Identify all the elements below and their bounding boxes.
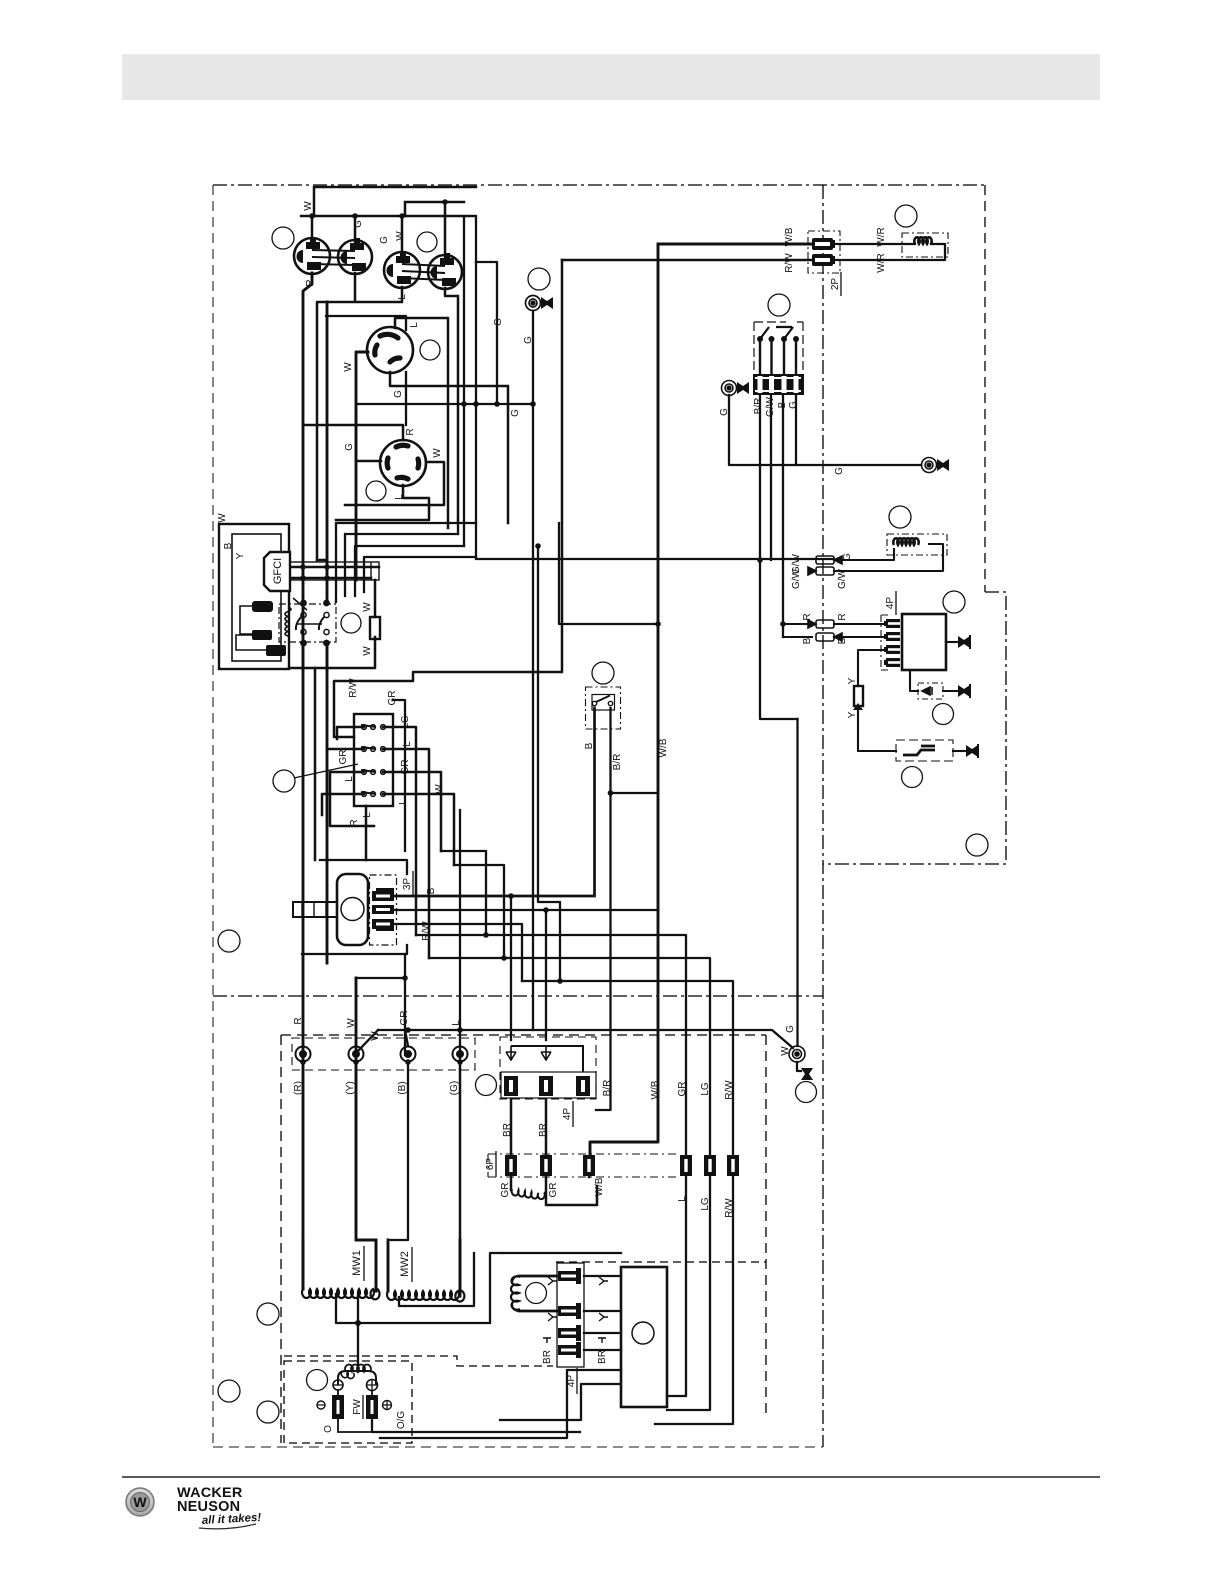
svg-text:W/B: W/B: [658, 738, 669, 757]
svg-text:W: W: [133, 1494, 147, 1510]
svg-text:B: B: [802, 637, 813, 644]
svg-text:R: R: [293, 1017, 304, 1024]
main winding MW1: [302, 1289, 380, 1300]
enclosure boundary top: [213, 184, 985, 186]
svg-text:G: G: [344, 443, 355, 451]
ground lug frame bottom: [789, 1046, 813, 1080]
fuse bodies: [504, 1076, 590, 1096]
svg-text:4P: 4P: [562, 1108, 573, 1121]
svg-text:R/W: R/W: [421, 921, 432, 941]
GR sense coil: [512, 1189, 545, 1199]
svg-text:(B): (B): [397, 1081, 408, 1094]
ground oil switch right: [966, 744, 978, 758]
svg-text:R/W: R/W: [348, 678, 359, 698]
svg-text:R/W: R/W: [724, 1080, 735, 1100]
svg-text:B: B: [837, 637, 848, 644]
wire G/W run: [476, 558, 834, 560]
svg-text:LG: LG: [700, 1197, 711, 1211]
svg-text:W: W: [303, 201, 314, 211]
wire bullets to 4P: [834, 624, 886, 637]
svg-text:GR: GR: [338, 750, 349, 765]
wire 3P loop: [302, 860, 407, 954]
wire right G ground run: [729, 395, 921, 465]
wire fuse link: [289, 580, 375, 668]
wire GR riser: [356, 700, 405, 1055]
wire reg pin3 fuse: [858, 650, 896, 751]
wire TL1 L: [395, 318, 448, 528]
regulator body: [902, 614, 946, 670]
svg-text:W: W: [346, 1018, 357, 1028]
wire TL2 L: [336, 485, 429, 520]
wire receptacle stubs: [312, 202, 445, 256]
bullet connectors G/W: [808, 556, 842, 575]
svg-text:O/G: O/G: [396, 1411, 407, 1430]
diode 2: [541, 1046, 551, 1060]
svg-text:BR: BR: [538, 1123, 549, 1137]
breaker fuse bodies: [753, 374, 804, 395]
wire GFCI nested loops: [336, 523, 476, 602]
circuit breaker bank: [753, 322, 804, 395]
control panel divider: [822, 185, 824, 1447]
wire exciter link: [502, 1252, 621, 1254]
svg-text:G: G: [523, 336, 534, 344]
twist-lock receptacle 30A 3-slot: [367, 327, 413, 373]
svg-text:G/W: G/W: [765, 396, 776, 417]
wire TL1 G: [390, 372, 508, 523]
relay contactor: [279, 598, 380, 646]
svg-text:G: G: [379, 236, 390, 244]
svg-text:GR: GR: [500, 1183, 511, 1198]
svg-text:W/B: W/B: [784, 227, 795, 246]
selector switch: [354, 714, 393, 806]
wire selector fan to 6P: [416, 851, 733, 1154]
low oil level switch: [586, 687, 621, 729]
wire bullet GW return: [834, 544, 943, 571]
header gray bar: [122, 54, 1100, 100]
wire right bundle verticals: [458, 216, 476, 557]
svg-text:3P: 3P: [402, 878, 413, 891]
svg-text:2P: 2P: [830, 278, 841, 291]
svg-text:B: B: [426, 887, 437, 894]
GFCI device body: [264, 552, 290, 591]
svg-text:G: G: [842, 553, 853, 561]
ground lug breaker: [722, 381, 750, 396]
wire MW1 winding sides: [303, 1240, 376, 1289]
oil level switch: [896, 740, 953, 761]
wire W/B bus: [590, 244, 658, 1154]
CDI unit: [621, 1267, 667, 1407]
wire MW2 winding sides: [388, 1240, 460, 1296]
svg-text:B: B: [223, 542, 234, 549]
svg-text:L: L: [394, 494, 405, 500]
exciter pickup coil: [511, 1276, 520, 1311]
diode module: [918, 683, 943, 699]
enclosure boundary left: [212, 185, 214, 1447]
lighting coil: [887, 534, 947, 555]
wire pins to CDI: [584, 1276, 621, 1350]
svg-text:L: L: [409, 322, 420, 328]
svg-text:W/B: W/B: [650, 1080, 661, 1099]
wire R bus: [303, 273, 312, 1289]
wire selector left taps: [322, 727, 374, 860]
svg-text:Y: Y: [235, 552, 246, 559]
wire R/W bus: [334, 260, 562, 737]
svg-text:MW2: MW2: [399, 1251, 411, 1277]
wire GR coil bottom: [588, 1164, 591, 1177]
wire reg bottom tap: [910, 670, 958, 691]
svg-text:W: W: [343, 362, 354, 372]
svg-text:B/R: B/R: [753, 398, 764, 415]
wire terminal G bus: [358, 1030, 793, 1051]
3P pins: [372, 888, 394, 931]
GFCI assembly box: [219, 524, 379, 669]
wire G bus center: [532, 312, 534, 1030]
wire reg ground: [946, 641, 958, 643]
svg-text:Y: Y: [847, 677, 858, 684]
wire R/W top run: [562, 259, 812, 262]
svg-text:O: O: [323, 1425, 334, 1433]
svg-text:B: B: [777, 401, 788, 408]
svg-text:G: G: [353, 220, 364, 228]
brush terminals row: [292, 1038, 475, 1070]
ignition 4P pin block: [543, 1263, 608, 1367]
svg-text:G/W: G/W: [837, 568, 848, 589]
svg-text:4P: 4P: [566, 1375, 577, 1388]
svg-text:G: G: [510, 409, 521, 417]
2P connector: [808, 231, 840, 273]
svg-text:B: B: [584, 742, 595, 749]
wire bullets R B feeds: [783, 624, 812, 637]
svg-text:LG: LG: [700, 1082, 711, 1096]
relay coil: [285, 607, 291, 636]
wire WR coil loop: [833, 244, 945, 260]
svg-text:GR: GR: [400, 760, 411, 775]
wire relay bottom: [303, 642, 327, 668]
generator box top: [281, 1034, 766, 1036]
svg-text:GR: GR: [677, 1082, 688, 1097]
wire 6P right drops: [655, 1177, 733, 1424]
svg-text:R/W: R/W: [784, 253, 795, 273]
bullet connectors R/B: [808, 620, 842, 641]
svg-text:R/W: R/W: [724, 1198, 735, 1218]
svg-text:B/R: B/R: [612, 754, 623, 771]
wire GFCI buses: [326, 302, 329, 963]
fuse Y: [853, 686, 863, 710]
wire exciter loop: [519, 1276, 557, 1311]
footer rule: [122, 1476, 1100, 1478]
svg-text:G: G: [719, 408, 730, 416]
wire W/B top run: [658, 243, 813, 246]
svg-text:6P: 6P: [485, 1158, 496, 1171]
svg-text:BR: BR: [502, 1123, 513, 1137]
svg-text:BR: BR: [542, 1350, 553, 1364]
svg-text:GR: GR: [387, 691, 398, 706]
svg-text:L: L: [402, 741, 413, 747]
svg-text:G: G: [788, 401, 799, 409]
wire ground drop bottom: [797, 1062, 801, 1071]
svg-text:(R): (R): [293, 1081, 304, 1095]
svg-text:W: W: [362, 646, 373, 656]
svg-text:G: G: [834, 467, 845, 475]
wire toroid links: [290, 567, 379, 578]
generator box left: [280, 1035, 282, 1443]
wire loop to W/B bus: [559, 523, 658, 624]
svg-text:W: W: [432, 448, 443, 458]
wire B/R link to W/B: [611, 792, 659, 794]
enclosure boundary right upper: [984, 185, 986, 592]
wire W feed bus: [301, 215, 474, 218]
svg-text:L: L: [397, 294, 408, 300]
wire G link to ground: [356, 262, 533, 404]
relay contacts: [301, 612, 306, 617]
svg-text:G: G: [393, 390, 404, 398]
svg-text:W: W: [217, 513, 228, 523]
svg-text:G: G: [785, 1025, 796, 1033]
wire mid drop 538: [538, 546, 560, 981]
wire BR drops: [511, 1099, 597, 1205]
svg-text:FW: FW: [352, 1399, 363, 1415]
wire D ground: [445, 288, 458, 520]
svg-text:W/R: W/R: [876, 227, 887, 246]
svg-text:W: W: [780, 1046, 791, 1056]
engine stop switch 3P plug: [293, 874, 397, 945]
svg-text:R: R: [349, 819, 360, 826]
svg-text:MW1: MW1: [351, 1250, 363, 1276]
W/R resistor coil: [902, 233, 948, 257]
field winding FW unit: [317, 1365, 392, 1432]
svg-text:BR: BR: [597, 1350, 608, 1364]
main winding MW2: [387, 1291, 464, 1302]
GFCI test buttons: [252, 601, 286, 656]
ground regulator right: [958, 635, 970, 649]
svg-text:(G): (G): [449, 1081, 460, 1095]
svg-text:R: R: [405, 428, 416, 435]
ground lug G center: [526, 296, 554, 311]
diode 1: [506, 1046, 516, 1060]
wire W bus from TL1: [356, 352, 376, 1291]
svg-text:R: R: [802, 613, 813, 620]
svg-text:B/R: B/R: [602, 1080, 613, 1097]
svg-text:L: L: [398, 799, 409, 805]
wire B to low-oil switch: [394, 708, 595, 896]
svg-text:G/W: G/W: [791, 568, 802, 589]
Y strain marks: [543, 1277, 608, 1343]
section divider mid: [213, 995, 823, 997]
wire TL1 wrap loop: [326, 316, 406, 425]
duplex receptacle GFCI pair left: [294, 237, 372, 274]
ground diode right: [958, 684, 970, 698]
ignition box top: [556, 1261, 766, 1263]
svg-text:L: L: [344, 776, 355, 782]
generator box right: [765, 1035, 767, 1414]
wire selector right taps: [383, 727, 454, 958]
svg-text:W: W: [362, 602, 373, 612]
wire B/R switch to diode block: [394, 708, 658, 1110]
wire FW out: [372, 1420, 580, 1432]
6P connector row: [488, 1154, 739, 1199]
svg-text:L: L: [677, 1196, 688, 1202]
svg-text:W: W: [370, 1031, 381, 1041]
enclosure boundary bottom: [213, 1446, 823, 1448]
svg-text:LG: LG: [400, 715, 411, 729]
svg-text:W: W: [434, 784, 445, 794]
twist-lock receptacle 4-slot: [380, 440, 426, 486]
svg-text:GR: GR: [548, 1183, 559, 1198]
wire neutral stub: [317, 273, 402, 560]
svg-text:W: W: [395, 231, 406, 241]
svg-text:W/B: W/B: [594, 1177, 605, 1196]
svg-text:Y: Y: [847, 711, 858, 718]
svg-text:R: R: [837, 613, 848, 620]
regulator 4P pins: [881, 614, 946, 670]
duplex receptacle pair right: [384, 251, 462, 289]
svg-text:L: L: [451, 1020, 462, 1026]
wire breaker pole drops: [760, 395, 798, 719]
wire top panel loop: [314, 187, 476, 216]
wire second outlet loop: [405, 202, 464, 216]
svg-text:4P: 4P: [885, 597, 896, 610]
svg-text:W/R: W/R: [876, 253, 887, 272]
FW box: [284, 1361, 412, 1443]
svg-text:(Y): (Y): [345, 1081, 356, 1094]
svg-text:L: L: [362, 812, 373, 818]
wire 3P outputs: [394, 896, 546, 1040]
thermal fuse W: [370, 617, 380, 639]
wire TL2 R: [305, 425, 403, 440]
GFCI current toroid: [290, 562, 379, 580]
diode rectifier block: [500, 1037, 596, 1099]
svg-text:R: R: [305, 279, 316, 286]
wire oil switch ground: [953, 750, 966, 752]
ground lug right G: [922, 458, 950, 473]
wire G drop to frame ground: [796, 719, 798, 1046]
wire TL2 W: [345, 462, 444, 505]
wire CDI bottom taps: [380, 1370, 621, 1438]
engine box right extension: [823, 592, 1006, 864]
wire MW taps: [336, 1253, 502, 1372]
generator box bottom notch: [284, 1356, 553, 1366]
svg-text:G: G: [493, 318, 504, 326]
svg-text:GR: GR: [399, 1011, 410, 1026]
svg-text:GFCI: GFCI: [272, 558, 284, 584]
plug stem: [293, 902, 337, 917]
FW fuses: [332, 1395, 378, 1419]
wire terminal risers: [303, 1030, 460, 1296]
wire L bus: [459, 810, 461, 1296]
wire TL2 G: [356, 404, 381, 461]
callout circles: [272, 227, 294, 249]
